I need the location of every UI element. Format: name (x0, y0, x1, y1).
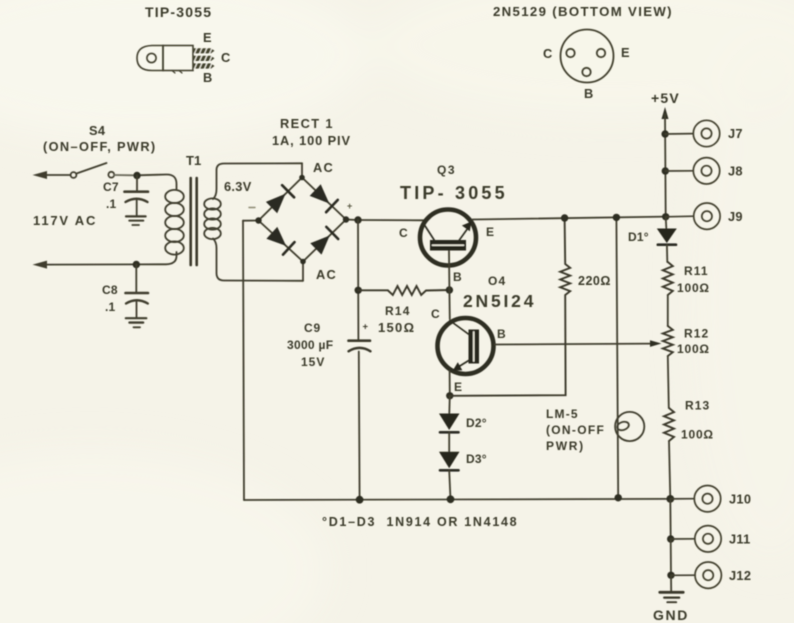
wire: lamp branch vertical (616, 217, 618, 497)
ground GND (660, 592, 683, 602)
svg-text:AC: AC (313, 160, 334, 175)
node J10 junction (666, 495, 674, 503)
wire: Q4 emitter down (449, 371, 451, 396)
svg-text:D3°: D3° (466, 452, 487, 466)
diode D3 (448, 432, 450, 451)
wire J9 (666, 215, 694, 218)
svg-text:B: B (584, 86, 594, 101)
svg-text:100Ω: 100Ω (677, 281, 710, 295)
package TIP-3055 leads (193, 48, 215, 69)
wire: R12 to R13 (668, 356, 669, 408)
lamp LM-5 (615, 412, 644, 441)
capacitor C8 (126, 265, 149, 318)
wire: down to J12 (670, 539, 672, 575)
wire: D3 to ground rail (449, 470, 450, 499)
svg-text:(ON-OFF: (ON-OFF (546, 423, 605, 437)
connector J7 (693, 120, 719, 146)
ground (C7) (126, 216, 146, 225)
wire: top line junction to transformer primary (137, 174, 177, 189)
wire J12 (671, 574, 695, 576)
svg-text:+5V: +5V (651, 90, 680, 106)
wire: Q3 base down (448, 251, 450, 290)
wire: minus rail down left side (243, 221, 244, 500)
wire: secondary top to bridge (213, 163, 302, 199)
wire: ground rail down to J11 (669, 499, 671, 539)
+5V arrow (662, 107, 669, 119)
svg-text:3000 µF: 3000 µF (287, 338, 333, 352)
svg-text:2N5I24: 2N5I24 (463, 291, 536, 311)
svg-text:E: E (621, 45, 630, 60)
transformer T1 core (191, 178, 197, 265)
wire J11 (671, 538, 695, 540)
transformer T1 primary winding (165, 190, 184, 255)
node C8 junction (133, 261, 140, 268)
node C7 junction (133, 172, 140, 179)
svg-text:R13: R13 (685, 399, 710, 413)
wire: bottom AC line (46, 252, 177, 265)
transistor Q3 emitter lead + arrow (459, 228, 468, 241)
resistor 220ohm (450, 218, 570, 396)
wire: secondary bottom to bridge (213, 239, 303, 281)
svg-text:RECT 1: RECT 1 (280, 116, 334, 131)
wire: plus output to Q3 collector (358, 219, 424, 221)
diode D1 (665, 217, 668, 228)
node J11 junction (667, 535, 674, 542)
svg-text:C: C (399, 226, 408, 240)
resistor R13 100ohm (664, 408, 674, 441)
package TIP-3055 body (137, 46, 193, 74)
svg-text:150Ω: 150Ω (378, 320, 415, 335)
connector J10 (694, 486, 720, 512)
wire J7 (665, 133, 693, 135)
svg-text:E: E (203, 30, 212, 45)
svg-text:E: E (454, 380, 462, 394)
svg-text:J8: J8 (728, 164, 743, 179)
arrow left top (33, 171, 48, 179)
connector J9 (694, 203, 720, 229)
wire J10 (670, 498, 694, 500)
svg-text:B: B (203, 70, 213, 85)
node bridge left vertex (255, 217, 261, 223)
svg-text:PWR): PWR) (546, 439, 585, 453)
node bridge bottom vertex (300, 259, 306, 265)
svg-text:.1: .1 (105, 300, 116, 314)
transistor Q3 base bar (430, 240, 466, 251)
node bridge right vertex (343, 216, 349, 222)
node J9 junction (662, 213, 669, 220)
svg-text:6.3V: 6.3V (224, 179, 252, 194)
svg-text:J9: J9 (728, 209, 743, 224)
wire J8 (665, 170, 693, 172)
wire: bottom ground rail (244, 499, 670, 500)
svg-text:Q3: Q3 (437, 163, 456, 177)
svg-text:+: + (363, 322, 369, 333)
node Q4 emitter junction (446, 392, 453, 399)
svg-text:°D1–D3 1N914 OR 1N4148: °D1–D3 1N914 OR 1N4148 (322, 515, 518, 529)
wire: D1 to R11 (666, 245, 668, 262)
wire: Q3 emitter to +5V rail (473, 217, 667, 220)
resistor R12 100ohm (663, 326, 673, 356)
capacitor C7 (125, 176, 149, 216)
svg-text:B: B (453, 270, 462, 284)
resistor R11 100ohm (663, 262, 673, 295)
svg-text:TIP-3055: TIP-3055 (145, 4, 212, 20)
svg-text:O4: O4 (488, 274, 506, 288)
svg-text:B: B (497, 327, 506, 341)
node lamp top junction (613, 214, 620, 221)
transistor Q4 base bar (469, 330, 480, 364)
svg-text:+: + (347, 201, 352, 211)
svg-text:AC: AC (316, 267, 337, 282)
diode bridge top-left (266, 194, 286, 214)
svg-text:E: E (486, 225, 494, 239)
svg-text:D2°: D2° (466, 416, 487, 430)
svg-text:J7: J7 (728, 126, 743, 141)
wire: plus junction down to C9 (357, 220, 359, 340)
svg-text:LM-5: LM-5 (546, 407, 579, 421)
package 2N5129 can outline (561, 30, 614, 83)
arrow left bottom (33, 261, 48, 269)
diode D2 (448, 396, 451, 413)
wire: Q3 base to Q4 collector (448, 290, 450, 319)
svg-text:C: C (431, 307, 440, 321)
node plus junction (354, 216, 361, 223)
transistor Q4 emitter lead + arrow (459, 360, 470, 367)
transistor Q4 (438, 318, 494, 374)
svg-text:S4: S4 (89, 123, 106, 138)
svg-text:C: C (221, 50, 231, 65)
svg-text:15V: 15V (301, 355, 325, 369)
connector J11 (695, 526, 721, 552)
node lamp bottom junction (615, 494, 622, 501)
switch S4 (46, 163, 134, 178)
svg-text:J12: J12 (729, 568, 751, 583)
svg-text:T1: T1 (186, 153, 201, 168)
resistor R14 150ohm (358, 286, 449, 295)
connector J8 (693, 158, 719, 184)
node J7 junction (661, 130, 668, 137)
node R14 left junction (355, 287, 362, 294)
svg-text:R14: R14 (385, 304, 411, 318)
transistor Q4 collector lead (450, 321, 469, 335)
ground (C8) (126, 318, 147, 327)
transistor Q3 collector lead (424, 224, 435, 241)
svg-text:C9: C9 (304, 321, 321, 335)
svg-text:D1°: D1° (628, 230, 649, 244)
rectifier bridge frame (243, 163, 358, 280)
node bridge top vertex (299, 175, 305, 181)
wire: R13 to ground rail (669, 441, 670, 499)
node D3 ground junction (447, 495, 455, 503)
wire: R11 to R12 (667, 295, 669, 326)
svg-text:C: C (543, 46, 553, 61)
node 220ohm top junction (561, 214, 568, 221)
transistor Q3 (420, 210, 476, 266)
svg-text:100Ω: 100Ω (681, 428, 714, 442)
node Q3 base junction (446, 286, 453, 293)
svg-text:R11: R11 (684, 264, 709, 278)
wire: C9 to ground rail (358, 352, 361, 500)
svg-text:2N5129 (BOTTOM VIEW): 2N5129 (BOTTOM VIEW) (493, 4, 673, 19)
svg-text:C8: C8 (102, 283, 118, 297)
svg-text:J11: J11 (729, 532, 751, 547)
svg-text:C7: C7 (103, 180, 119, 194)
svg-text:.1: .1 (106, 197, 117, 211)
svg-text:220Ω: 220Ω (578, 274, 611, 288)
node J12 junction (667, 572, 674, 579)
node C9 ground junction (356, 496, 364, 504)
capacitor C9 (349, 341, 371, 352)
svg-text:TIP- 3055: TIP- 3055 (400, 183, 508, 203)
svg-text:1A, 100 PIV: 1A, 100 PIV (272, 133, 351, 148)
svg-text:R12: R12 (684, 327, 709, 341)
wire: J12 to ground (670, 575, 672, 591)
wire: Q4 base to R12 wiper (495, 343, 655, 346)
connector J12 (695, 562, 721, 588)
svg-text:J10: J10 (729, 492, 751, 507)
svg-text:117V AC: 117V AC (33, 213, 97, 228)
svg-text:GND: GND (653, 607, 689, 623)
diode bridge bottom-right (310, 236, 329, 255)
svg-text:100Ω: 100Ω (677, 342, 710, 356)
svg-text:(ON–OFF, PWR): (ON–OFF, PWR) (43, 139, 157, 154)
node J8 junction (662, 167, 669, 174)
transformer T1 secondary winding (204, 198, 221, 239)
diode bridge top-right (310, 184, 330, 203)
wire: +5V rail down to J9 junction (664, 114, 667, 217)
diode bridge bottom-left (266, 227, 286, 246)
